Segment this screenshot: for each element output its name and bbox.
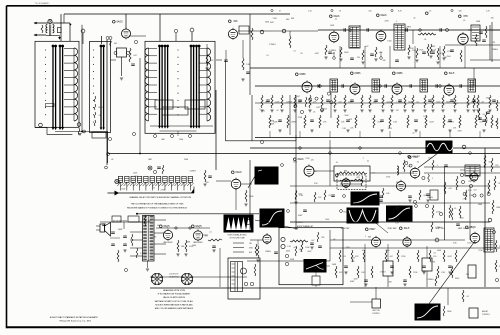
svg-text:CONTROL: CONTROL	[372, 313, 380, 315]
svg-text:.01: .01	[98, 115, 101, 117]
svg-text:SYNC SEP: SYNC SEP	[387, 228, 397, 230]
svg-text:.0047: .0047	[307, 251, 312, 253]
svg-text:.01: .01	[314, 171, 317, 173]
svg-text:.01: .01	[209, 232, 212, 234]
svg-text:330: 330	[459, 11, 462, 13]
svg-text:120: 120	[396, 110, 399, 112]
svg-text:.02: .02	[157, 225, 160, 227]
svg-text:COLOR DOT: COLOR DOT	[169, 274, 179, 276]
svg-text:.05: .05	[360, 210, 363, 212]
svg-text:VALUE OF APPLICATION: VALUE OF APPLICATION	[163, 296, 186, 299]
svg-text:100K: 100K	[478, 204, 483, 206]
svg-text:.05: .05	[454, 208, 457, 210]
svg-text:6AU6: 6AU6	[236, 171, 243, 174]
svg-text:.01: .01	[477, 102, 480, 104]
svg-text:SYNC INV: SYNC INV	[341, 228, 350, 230]
svg-text:MEASURED WITH VTVM: MEASURED WITH VTVM	[163, 289, 185, 292]
svg-text:220: 220	[369, 11, 372, 13]
svg-text:120: 120	[433, 256, 436, 258]
svg-text:VIDEO SIGNAL AT GRID: VIDEO SIGNAL AT GRID	[228, 233, 248, 236]
svg-text:.0047: .0047	[429, 122, 434, 124]
svg-text:.02: .02	[479, 122, 482, 124]
svg-text:.1: .1	[362, 157, 364, 159]
svg-text:HORIZ PHASE DET: HORIZ PHASE DET	[297, 225, 314, 228]
svg-text:560K: 560K	[118, 229, 123, 231]
svg-text:1500: 1500	[412, 50, 416, 52]
svg-text:CHANNEL SELECTOR SWITCH SHOWN: CHANNEL SELECTOR SWITCH SHOWN IN CHANNEL…	[129, 196, 191, 199]
svg-text:1500: 1500	[184, 159, 188, 161]
svg-text:.05: .05	[359, 25, 362, 27]
svg-text:.05: .05	[424, 39, 427, 41]
svg-text:1500: 1500	[447, 56, 451, 58]
svg-text:.047: .047	[133, 55, 137, 57]
svg-text:.047: .047	[297, 96, 301, 98]
svg-text:.02: .02	[111, 159, 114, 161]
svg-text:.047: .047	[473, 189, 477, 191]
svg-text:6AG5: 6AG5	[116, 21, 123, 24]
svg-text:.1: .1	[258, 109, 260, 111]
svg-text:6AU6: 6AU6	[298, 158, 305, 161]
svg-text:2.2MEG: 2.2MEG	[447, 122, 454, 124]
svg-text:.1: .1	[299, 251, 301, 253]
svg-text:2.2MEG: 2.2MEG	[189, 170, 196, 172]
svg-text:.02: .02	[433, 253, 436, 255]
svg-text:MODELS WHEN WATTAGE IS PARTS: MODELS WHEN WATTAGE IS PARTS AND	[155, 303, 193, 306]
svg-text:.1: .1	[365, 236, 367, 238]
svg-text:2.2MEG: 2.2MEG	[427, 279, 434, 281]
svg-text:.01: .01	[299, 249, 302, 251]
svg-text:1MEG: 1MEG	[98, 107, 104, 109]
svg-text:.1: .1	[441, 54, 443, 56]
svg-text:1500: 1500	[467, 243, 471, 245]
svg-text:.02: .02	[334, 19, 337, 21]
svg-text:.0047: .0047	[350, 281, 355, 283]
svg-text:2.2MEG: 2.2MEG	[396, 102, 403, 104]
svg-text:ON BOTTOM: ON BOTTOM	[169, 277, 179, 279]
svg-text:.1: .1	[371, 119, 373, 121]
svg-text:120: 120	[318, 197, 321, 199]
svg-text:IF NO WAVES USE FOR ALIGNMENT: IF NO WAVES USE FOR ALIGNMENT	[158, 293, 191, 296]
svg-text:1500: 1500	[428, 157, 432, 159]
svg-text:2.2MEG: 2.2MEG	[296, 222, 303, 224]
svg-text:2.2MEG: 2.2MEG	[435, 227, 442, 229]
svg-text:RECEIVER MAKES IT POSSIBLE TO: RECEIVER MAKES IT POSSIBLE TO BRING YOU …	[127, 206, 188, 209]
svg-text:.05: .05	[488, 162, 491, 164]
svg-text:OF PICTURE TUBE: OF PICTURE TUBE	[229, 237, 245, 239]
svg-text:.0047: .0047	[314, 53, 319, 55]
svg-text:VERT LIN: VERT LIN	[372, 310, 380, 312]
svg-text:YEL: YEL	[249, 243, 252, 245]
svg-text:1500: 1500	[179, 139, 183, 141]
svg-text:.047: .047	[311, 240, 315, 242]
svg-text:6AL5: 6AL5	[449, 72, 455, 75]
svg-text:1MEG: 1MEG	[492, 49, 498, 51]
svg-text:.01: .01	[328, 195, 331, 197]
svg-text:1MEG: 1MEG	[380, 271, 386, 273]
svg-text:6AQ5: 6AQ5	[195, 225, 202, 228]
svg-text:.0047: .0047	[270, 22, 275, 24]
svg-text:.047: .047	[466, 104, 470, 106]
svg-text:120: 120	[423, 116, 426, 118]
svg-text:6AQ5: 6AQ5	[163, 225, 170, 228]
svg-text:6AL5: 6AL5	[404, 227, 410, 230]
svg-text:100K: 100K	[332, 264, 337, 266]
svg-text:.05: .05	[413, 18, 416, 20]
svg-text:120: 120	[311, 159, 314, 161]
svg-text:.02: .02	[466, 296, 469, 298]
svg-text:2.2MEG: 2.2MEG	[286, 101, 293, 103]
svg-text:47: 47	[279, 11, 281, 13]
svg-text:.05: .05	[429, 11, 432, 13]
svg-text:.01: .01	[343, 256, 346, 258]
svg-text:.047: .047	[365, 46, 369, 48]
svg-text:VERT INT: VERT INT	[412, 156, 420, 158]
svg-text:1MEG: 1MEG	[496, 207, 500, 209]
svg-text:.05: .05	[300, 53, 303, 55]
svg-text:.047: .047	[332, 53, 336, 55]
svg-text:.047: .047	[316, 107, 320, 109]
svg-text:.05: .05	[313, 111, 316, 113]
svg-text:120: 120	[210, 60, 213, 62]
svg-text:6AU6: 6AU6	[381, 14, 388, 17]
svg-text:TV-5 SCHEMATIC: TV-5 SCHEMATIC	[35, 2, 50, 5]
svg-text:THE COOPERATION OF THE MANUFAC: THE COOPERATION OF THE MANUFACTURER OF T…	[131, 202, 184, 205]
svg-text:.0047: .0047	[447, 256, 452, 258]
svg-text:.05: .05	[463, 20, 466, 22]
svg-text:1500: 1500	[134, 176, 138, 178]
svg-text:270K: 270K	[298, 117, 303, 119]
svg-text:1500: 1500	[386, 250, 390, 252]
svg-text:2.2MEG: 2.2MEG	[269, 44, 276, 46]
svg-text:.05: .05	[417, 162, 420, 164]
svg-text:6T8: 6T8	[463, 15, 468, 18]
svg-text:1MEG: 1MEG	[265, 251, 271, 253]
svg-text:.05: .05	[372, 173, 375, 175]
svg-text:120: 120	[395, 223, 398, 225]
svg-text:.1: .1	[432, 178, 434, 180]
svg-text:©Howard W. Sams & Co., Inc. 19: ©Howard W. Sams & Co., Inc. 1952	[59, 320, 92, 323]
svg-text:6SN7: 6SN7	[370, 228, 377, 231]
svg-text:1MEG: 1MEG	[453, 103, 459, 105]
svg-text:.01: .01	[367, 160, 370, 162]
svg-text:.1: .1	[396, 21, 398, 23]
svg-text:1500: 1500	[395, 208, 399, 210]
svg-text:.01: .01	[266, 55, 269, 57]
svg-text:2.2MEG: 2.2MEG	[140, 253, 147, 255]
svg-text:A PHOTOFACT STANDARD NOTATION: A PHOTOFACT STANDARD NOTATION SCHEMATIC	[50, 316, 99, 319]
svg-text:.01: .01	[361, 250, 364, 252]
svg-text:.0047: .0047	[298, 215, 303, 217]
svg-text:HEIGHT: HEIGHT	[482, 311, 488, 313]
svg-text:6CB6: 6CB6	[397, 72, 404, 75]
svg-text:WATTAGE IS PARTS LIST NOT LIN: WATTAGE IS PARTS LIST NOT LINE OF ALL	[155, 300, 194, 303]
svg-text:AND COLORS MARKED E ARE WATTAG: AND COLORS MARKED E ARE WATTAGES	[155, 307, 194, 310]
svg-text:.01: .01	[336, 162, 339, 164]
svg-text:.01: .01	[343, 186, 346, 188]
svg-text:AMPLIFIER: AMPLIFIER	[164, 241, 174, 244]
svg-text:.047: .047	[448, 188, 452, 190]
svg-text:6CB6: 6CB6	[300, 73, 307, 76]
svg-text:.02: .02	[412, 133, 415, 135]
svg-text:AMPLIFIER: AMPLIFIER	[194, 241, 204, 244]
svg-text:100K: 100K	[476, 21, 481, 23]
svg-text:470K: 470K	[290, 259, 295, 261]
svg-text:1MEG: 1MEG	[406, 26, 412, 28]
svg-text:.05: .05	[482, 114, 485, 116]
svg-text:.01: .01	[339, 11, 342, 13]
svg-text:1MEG: 1MEG	[427, 197, 433, 199]
svg-text:CONTROL: CONTROL	[482, 314, 490, 316]
svg-text:6J6: 6J6	[234, 20, 239, 23]
svg-text:SP OR EXT SPKR: SP OR EXT SPKR	[113, 221, 128, 223]
svg-text:.0047: .0047	[121, 189, 126, 191]
svg-text:6CB6: 6CB6	[355, 72, 362, 75]
svg-text:.047: .047	[293, 247, 297, 249]
svg-text:.047: .047	[389, 256, 393, 258]
svg-text:.01: .01	[293, 51, 296, 53]
svg-text:6BQ6: 6BQ6	[469, 226, 476, 229]
svg-text:.02: .02	[276, 110, 279, 112]
